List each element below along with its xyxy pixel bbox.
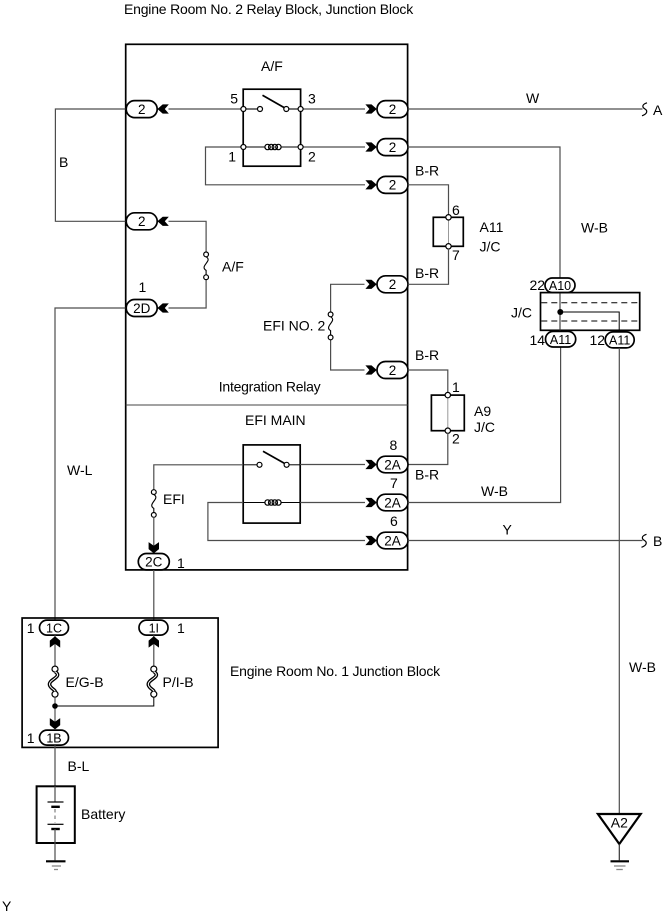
svg-text:W-L: W-L	[67, 462, 93, 478]
svg-text:3: 3	[308, 91, 316, 107]
svg-text:W-B: W-B	[481, 483, 508, 499]
arrow	[365, 104, 376, 113]
coil	[246, 146, 265, 148]
svg-text:5: 5	[230, 91, 238, 107]
svg-text:A11: A11	[550, 333, 571, 347]
svg-text:Engine Room No. 2 Relay Block,: Engine Room No. 2 Relay Block, Junction …	[124, 1, 414, 17]
fuse EFI NO. 2	[328, 312, 333, 340]
svg-text:Integration Relay: Integration Relay	[219, 379, 321, 395]
arrow into left oval 2	[157, 104, 168, 113]
fusible link E/G-B	[50, 666, 58, 697]
ground (A2)	[611, 861, 630, 869]
arrow	[365, 180, 376, 189]
svg-text:A11: A11	[609, 333, 630, 347]
junction block J/C (right)	[541, 293, 640, 331]
wire EFI fuse down to 2C	[153, 517, 155, 546]
svg-text:A10: A10	[549, 279, 571, 293]
wire 1C down to E/G-B fuse	[54, 635, 56, 666]
svg-text:A11: A11	[480, 219, 504, 235]
connector oval 1C	[40, 620, 69, 635]
connector oval 2C	[138, 554, 169, 570]
wire B-L from 1B to battery	[54, 745, 56, 786]
connector oval 2 (left mid)	[126, 213, 157, 230]
svg-text:A9: A9	[474, 403, 491, 419]
break symbol	[642, 534, 647, 547]
svg-text:B-L: B-L	[68, 758, 90, 774]
battery	[37, 786, 75, 843]
svg-text:2: 2	[389, 178, 397, 193]
svg-text:Battery: Battery	[81, 806, 125, 822]
connector oval 2 (left top)	[126, 101, 157, 118]
wire: A/F relay pin5 to left oval 2	[169, 108, 241, 110]
fuse A/F	[204, 252, 209, 280]
connector oval 1I	[139, 620, 168, 635]
wire W-B from 2A(7) right and up to A11(14)	[408, 348, 561, 503]
svg-text:1: 1	[27, 730, 35, 746]
svg-text:22: 22	[530, 277, 546, 293]
coil	[243, 502, 265, 504]
wire switch right to 2A(8)	[300, 464, 365, 466]
svg-text:B-R: B-R	[415, 347, 439, 363]
svg-text:2: 2	[138, 214, 146, 229]
wire W-B from oval y147 down to A10	[408, 147, 560, 278]
svg-text:1: 1	[452, 379, 460, 395]
switch blade	[263, 451, 285, 463]
node junction dot	[52, 703, 58, 709]
svg-text:A/F: A/F	[261, 58, 283, 74]
svg-text:1I: 1I	[149, 621, 159, 635]
svg-text:W: W	[526, 90, 540, 106]
connector oval A11 (14)	[546, 331, 576, 347]
junction A9 J/C box	[431, 392, 464, 433]
svg-text:2A: 2A	[384, 495, 401, 510]
svg-text:1: 1	[228, 149, 236, 165]
svg-text:1B: 1B	[46, 731, 61, 745]
ground connector A2 triangle	[598, 814, 641, 844]
svg-text:1C: 1C	[46, 621, 62, 635]
connector oval A10	[545, 278, 575, 293]
svg-text:1: 1	[177, 555, 185, 571]
svg-text:B-R: B-R	[415, 265, 439, 281]
fuse EFI	[151, 490, 156, 518]
break symbol	[642, 103, 647, 116]
connector oval 2 (right y370)	[377, 362, 408, 379]
wire dot to A11(12)	[560, 312, 619, 332]
svg-text:2A: 2A	[384, 533, 401, 548]
arrow into 2D	[157, 303, 168, 312]
connector oval 2A (8)	[377, 456, 408, 473]
svg-text:2C: 2C	[145, 555, 163, 570]
svg-text:Y: Y	[2, 898, 12, 913]
arrow	[365, 498, 376, 507]
svg-text:W-B: W-B	[581, 220, 608, 236]
svg-text:14: 14	[530, 332, 546, 348]
connector oval A11 (12)	[605, 332, 634, 348]
svg-text:1: 1	[139, 279, 147, 295]
arrow	[365, 536, 376, 545]
svg-text:B: B	[59, 154, 68, 170]
svg-text:2: 2	[138, 102, 146, 117]
connector oval 2A (7)	[377, 494, 408, 511]
svg-text:2D: 2D	[133, 301, 151, 316]
junction block Engine Room No. 1 outline	[22, 618, 218, 747]
arrow up into 1I	[149, 636, 159, 647]
wire through J/C: A10 to A11(14)	[559, 293, 561, 332]
svg-text:EFI MAIN: EFI MAIN	[245, 412, 306, 428]
wire oval y185 to J/C A11 pin 6	[408, 185, 449, 215]
svg-text:8: 8	[390, 437, 398, 453]
connector oval 2 (right y284)	[377, 276, 408, 293]
connector oval 2A (6)	[377, 532, 408, 549]
wire coil right to 2A(7)	[300, 502, 365, 504]
wire A9 pin2 down to 2A(8)	[408, 433, 448, 465]
wire oval y370 to A9 J/C pin1	[408, 370, 448, 393]
svg-text:Y: Y	[503, 522, 513, 538]
switch stubs	[243, 464, 257, 466]
wire W to A	[408, 108, 643, 110]
wire Y from 2A(6) to B	[408, 540, 643, 542]
svg-text:W-B: W-B	[629, 659, 656, 675]
relay block outline	[126, 44, 408, 570]
wire E/G-B to junction node and 1B	[54, 697, 56, 728]
svg-text:A: A	[653, 102, 663, 118]
svg-text:2: 2	[389, 277, 397, 292]
fusible link P/I-B	[148, 666, 156, 697]
svg-text:2: 2	[452, 431, 460, 447]
svg-text:1: 1	[27, 620, 35, 636]
wire coil left down to 2A(6)	[208, 503, 365, 541]
wire W-B from A11(12) down to A2	[618, 348, 620, 813]
svg-text:7: 7	[390, 475, 398, 491]
arrow into left mid oval	[157, 217, 168, 226]
connector oval 2 (right y109)	[377, 101, 408, 118]
svg-text:EFI: EFI	[163, 491, 185, 507]
arrow down into 1B	[50, 718, 60, 729]
svg-text:2: 2	[308, 149, 316, 165]
wire battery to ground	[54, 843, 56, 860]
svg-text:Engine Room No. 1 Junction Blo: Engine Room No. 1 Junction Block	[230, 663, 441, 679]
connector oval 2 (right y185)	[377, 176, 408, 193]
wire J/C A11 pin7 down to oval y284	[408, 249, 449, 285]
wire inside: oval y284 to EFI NO.2 fuse to oval y370	[331, 284, 365, 312]
wire: A/F relay coil pin1 down and right to oval 2	[206, 147, 366, 185]
svg-text:B-R: B-R	[415, 163, 439, 179]
wire node to P/I-B	[55, 697, 154, 706]
connector oval 2 (right y147)	[377, 139, 408, 156]
relay A/F box	[241, 89, 303, 166]
arrow	[365, 460, 376, 469]
wire W-L: 2D left and down to 1C	[55, 308, 127, 620]
svg-text:2: 2	[389, 363, 397, 378]
arrow	[365, 280, 376, 289]
arrow down into 2C	[149, 542, 159, 553]
connector oval 1B	[40, 730, 69, 745]
svg-text:1: 1	[177, 620, 185, 636]
svg-text:J/C: J/C	[474, 419, 495, 435]
node (junction dot)	[557, 309, 563, 315]
svg-text:B-R: B-R	[415, 467, 439, 483]
svg-text:6: 6	[452, 202, 460, 218]
relay EFI MAIN box	[243, 445, 300, 523]
svg-text:E/G-B: E/G-B	[66, 674, 104, 690]
svg-text:B: B	[653, 533, 662, 549]
svg-text:6: 6	[390, 513, 398, 529]
arrow up into 1C	[50, 636, 60, 647]
svg-text:A2: A2	[611, 815, 628, 831]
junction A11 J/C box	[433, 215, 463, 249]
wire: inside, oval 2 to A/F fuse to 2D	[169, 221, 207, 252]
svg-text:2: 2	[389, 102, 397, 117]
svg-text:EFI NO. 2: EFI NO. 2	[263, 318, 325, 334]
arrow	[365, 365, 376, 374]
wire 2C down to 1I	[153, 570, 155, 620]
svg-text:2: 2	[389, 140, 397, 155]
pin circles	[241, 107, 246, 112]
switch stubs	[246, 108, 257, 110]
wire: A/F relay coil pin2 to right oval 2	[303, 146, 365, 148]
connector oval 2D	[126, 300, 157, 317]
divider line between Integration Relay and EFI MAIN sections	[126, 404, 408, 406]
svg-text:P/I-B: P/I-B	[163, 674, 194, 690]
wire A2 to ground	[618, 844, 620, 860]
svg-text:A/F: A/F	[222, 259, 244, 275]
wire B: left oval 2 to lower oval 2	[55, 109, 127, 221]
ground (battery)	[46, 861, 66, 869]
wire 1I down to P/I-B fuse	[153, 635, 155, 666]
wire: A/F relay pin3 to right oval 2	[303, 108, 365, 110]
switch blade	[263, 95, 285, 107]
wire switch left to EFI fuse	[154, 465, 243, 490]
arrow	[365, 142, 376, 151]
svg-text:2A: 2A	[384, 457, 401, 472]
svg-text:J/C: J/C	[511, 305, 532, 321]
svg-text:J/C: J/C	[480, 239, 501, 255]
svg-text:7: 7	[452, 247, 460, 263]
svg-text:12: 12	[590, 332, 606, 348]
